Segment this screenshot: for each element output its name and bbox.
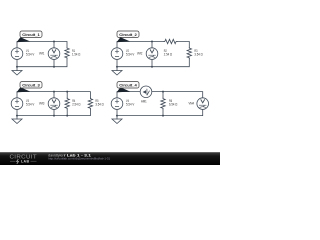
svg-text:AM1: AM1 xyxy=(141,98,147,103)
svg-text:2.54 Ω: 2.54 Ω xyxy=(72,102,80,107)
svg-text:2.54 Ω: 2.54 Ω xyxy=(164,52,172,57)
svg-text:5.54 V: 5.54 V xyxy=(126,52,135,57)
svg-text:5.54 V: 5.54 V xyxy=(126,102,135,107)
svg-text:Circuit_4: Circuit_4 xyxy=(119,83,137,88)
svg-text:5.54 V: 5.54 V xyxy=(26,102,35,107)
svg-text:5.54 V: 5.54 V xyxy=(26,52,35,57)
svg-text:Circuit_2: Circuit_2 xyxy=(119,32,137,37)
svg-text:VM3: VM3 xyxy=(39,101,45,106)
svg-text:Circuit_1: Circuit_1 xyxy=(22,32,40,37)
svg-text:3.54 Ω: 3.54 Ω xyxy=(194,52,202,57)
svg-text:3.54 Ω: 3.54 Ω xyxy=(95,102,103,107)
svg-text:6.54 Ω: 6.54 Ω xyxy=(169,102,177,107)
svg-text:LAB: LAB xyxy=(21,160,29,164)
svg-text:Circuit_3: Circuit_3 xyxy=(22,83,40,88)
svg-text:1.54 Ω: 1.54 Ω xyxy=(72,52,80,57)
svg-text:http://circuitlab.com/c6q5zeux: http://circuitlab.com/c6q5zeuxembv8kd/la… xyxy=(48,157,110,161)
svg-text:VM1: VM1 xyxy=(39,51,45,56)
svg-text:VM4: VM4 xyxy=(189,101,195,106)
svg-text:VM2: VM2 xyxy=(137,51,143,56)
